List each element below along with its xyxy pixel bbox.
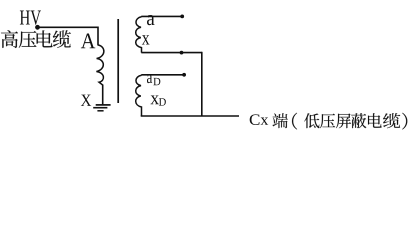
primary winding A-X coil <box>96 45 103 85</box>
ground bar 2 <box>93 107 107 109</box>
secondary winding aD-xD coil <box>136 75 142 116</box>
label x <box>142 35 150 44</box>
label A <box>81 34 95 49</box>
terminal dot aD <box>182 73 186 77</box>
wire coil to ground <box>102 85 104 106</box>
ground bar 3 <box>97 110 103 112</box>
label 高压电缆 (high-voltage cable) <box>1 30 18 48</box>
label Cx 端（低压屏蔽电缆） (Cx terminal, low-voltage shielded cable) <box>250 114 260 125</box>
wire terminal aD <box>141 74 184 76</box>
transformer core <box>117 19 119 103</box>
wire terminal x to bus <box>141 52 202 54</box>
wire xD to Cx terminal <box>141 115 239 117</box>
terminal dot a <box>180 15 184 19</box>
label xD <box>151 95 159 104</box>
secondary winding a-x coil <box>136 17 142 53</box>
ground bar 1 <box>96 104 111 106</box>
label X <box>81 95 91 106</box>
wire terminal a <box>141 15 182 17</box>
wire right bus down <box>201 52 203 116</box>
junction dot x <box>180 51 184 55</box>
label a <box>147 15 155 25</box>
wire HV bus horizontal <box>37 26 99 28</box>
label HV <box>20 11 30 25</box>
node HV junction dot <box>35 25 40 30</box>
wire down to primary winding <box>97 27 99 46</box>
label aD <box>147 74 152 83</box>
